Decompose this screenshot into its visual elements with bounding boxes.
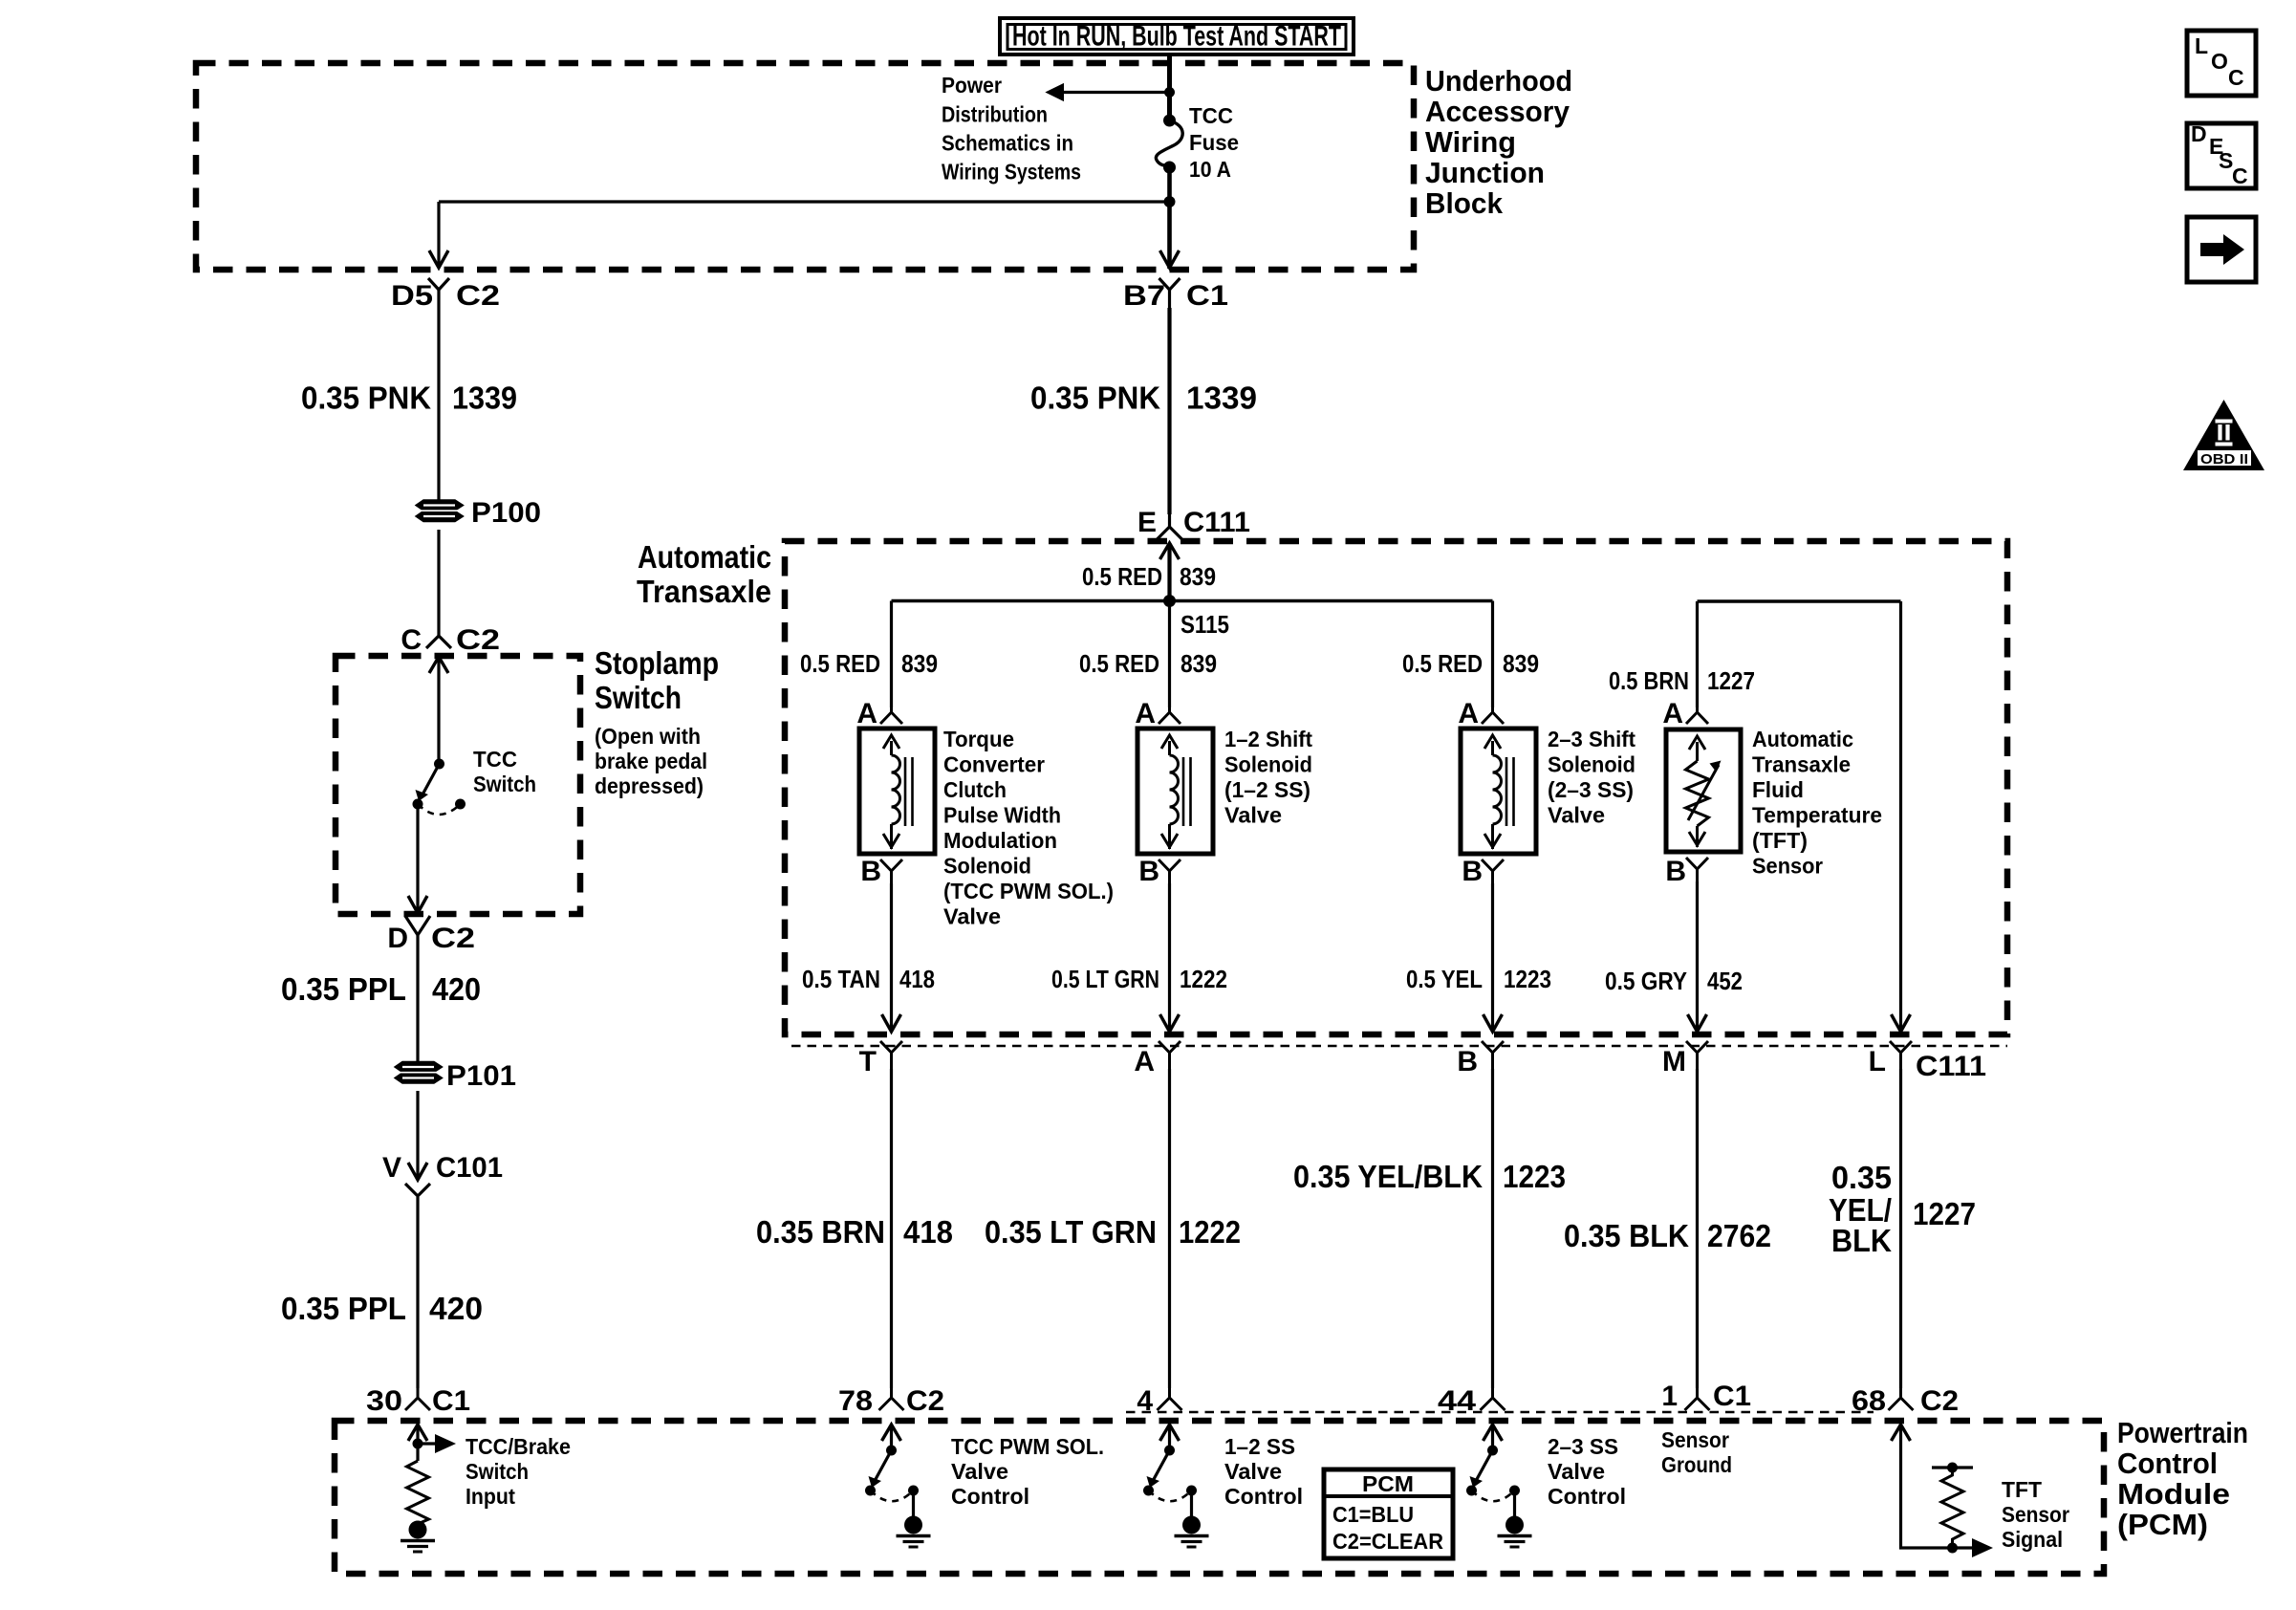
svg-text:30: 30 (366, 1385, 402, 1417)
svg-text:1227: 1227 (1913, 1196, 1976, 1231)
svg-text:OBD II: OBD II (2200, 451, 2248, 468)
wire: solenoid 3 B down to transaxle bottom with arrow (1484, 883, 1503, 1032)
solenoid 2-3 shift valve (coil) (1461, 729, 1536, 854)
svg-text:0.5 GRY: 0.5 GRY (1605, 967, 1687, 995)
svg-text:0.5 YEL: 0.5 YEL (1406, 965, 1483, 993)
svg-text:Control: Control (951, 1484, 1029, 1509)
arrow up into transaxle box at E (1160, 543, 1180, 559)
svg-text:Modulation: Modulation (943, 828, 1057, 853)
wire: P100 to stoplamp switch connector C (437, 530, 440, 623)
label: 0.35 PNK | 1339 (right) (1030, 381, 1257, 416)
wire: pin 30 entry with up arrow (408, 1425, 427, 1461)
label: 0.35 BLK | 2762 (1564, 1218, 1771, 1253)
svg-text:Automatic: Automatic (638, 539, 771, 575)
svg-text:C1=BLU: C1=BLU (1332, 1502, 1414, 1527)
arrow up into stoplamp box at C (429, 657, 448, 673)
svg-text:V: V (382, 1152, 401, 1184)
svg-text:Stoplamp: Stoplamp (595, 645, 719, 681)
wire: B down to PCM pin 44 (1491, 1069, 1494, 1388)
svg-text:418: 418 (903, 1214, 953, 1250)
wire: fuse bottom to junction with cross line (1167, 167, 1172, 269)
svg-text:0.5 RED: 0.5 RED (1082, 562, 1162, 591)
label: Stoplamp Switch (Open with brake pedal depressed) (595, 645, 719, 798)
svg-text:TCC: TCC (1189, 103, 1233, 128)
label: 0.5 RED | 839 (branch 3) (1402, 649, 1539, 678)
connector 4 (female, arms down) (1137, 1385, 1181, 1417)
svg-text:Valve: Valve (1224, 803, 1282, 828)
fuse TCC Fuse 10 A (1156, 115, 1182, 174)
svg-text:Valve: Valve (1224, 1459, 1282, 1484)
svg-text:TFT: TFT (2002, 1477, 2042, 1502)
svg-text:C: C (2232, 163, 2248, 188)
wire: E into splice S115 (1167, 543, 1171, 601)
connector C C2 (female, arms down) above stoplamp box (401, 623, 500, 656)
svg-text:Valve: Valve (1548, 803, 1605, 828)
wire: TFT link line to L drop (1698, 599, 1901, 603)
wire: TFT B down to transaxle bottom with arrow (1688, 881, 1707, 1032)
wire: TFT branch drop (1696, 601, 1699, 707)
svg-text:C2: C2 (456, 624, 500, 656)
svg-text:C2: C2 (456, 280, 500, 312)
label: Torque Converter Clutch Pulse Width Modulation Solenoid (TCC PWM SOL.) Valve (943, 727, 1114, 929)
svg-text:0.5 RED: 0.5 RED (800, 649, 880, 678)
wire: A down to PCM pin 4 (1168, 1069, 1171, 1388)
svg-text:Control: Control (2117, 1447, 2218, 1480)
connector 1 C1 (female, arms down) (1661, 1381, 1751, 1412)
svg-text:D: D (2191, 121, 2207, 146)
Underhood Accessory Wiring Junction Block dashed box (196, 63, 1414, 270)
svg-text:A: A (856, 698, 877, 729)
svg-text:C1: C1 (1186, 280, 1228, 312)
svg-text:C1: C1 (432, 1385, 470, 1417)
svg-text:(Open with: (Open with (595, 724, 701, 749)
wire: C101 down to PCM pin 30 (416, 1197, 419, 1388)
label: TCC Switch (473, 747, 536, 796)
solenoid TCC PWM SOL. valve (coil) (859, 729, 935, 854)
node: junction dot at pullup resistor bottom (1947, 1543, 1958, 1554)
svg-text:C1: C1 (1713, 1381, 1751, 1412)
Stoplamp Switch dashed box (336, 656, 580, 914)
wire: branch 3 drop (2-3 shift) (1491, 601, 1494, 708)
svg-text:Block: Block (1425, 186, 1504, 220)
svg-text:Solenoid: Solenoid (943, 854, 1031, 879)
arrow into junction block bottom at B7 (1160, 250, 1180, 268)
label: 0.5 TAN | 418 (802, 965, 935, 993)
svg-text:L: L (1869, 1046, 1886, 1077)
svg-text:0.35 LT GRN: 0.35 LT GRN (985, 1214, 1157, 1250)
label: 0.35 YEL/ BLK | 1227 (stacked) (1829, 1160, 1976, 1258)
svg-text:Fluid: Fluid (1752, 777, 1804, 802)
label: 1-2 Shift Solenoid (1-2 SS) Valve (1224, 727, 1312, 828)
svg-text:10 A: 10 A (1189, 157, 1231, 182)
svg-text:44: 44 (1438, 1385, 1476, 1417)
label: 0.35 PNK | 1339 (left) (301, 381, 517, 416)
svg-text:1227: 1227 (1707, 666, 1755, 695)
connector E C111 (female, arms down) (1137, 507, 1250, 539)
svg-text:Switch: Switch (466, 1459, 529, 1484)
svg-text:C2: C2 (1920, 1385, 1959, 1417)
svg-text:C: C (401, 624, 422, 656)
label: 0.35 PPL | 420 (upper) (281, 971, 481, 1007)
svg-text:PCM: PCM (1362, 1471, 1414, 1496)
svg-text:L: L (2195, 33, 2208, 58)
svg-text:B: B (1462, 856, 1483, 887)
svg-text:1: 1 (1661, 1381, 1678, 1412)
svg-text:Sensor: Sensor (2002, 1502, 2069, 1527)
Underhood Accessory Wiring Junction Block label (1425, 64, 1572, 220)
switch: PCM driver (pin 4) (1143, 1446, 1197, 1502)
svg-text:839: 839 (1503, 649, 1539, 678)
label: 0.5 RED | 839 (top) (1082, 562, 1216, 591)
label: 2-3 SS Valve Control (1548, 1434, 1626, 1509)
svg-text:Sensor: Sensor (1661, 1427, 1729, 1452)
svg-text:Transaxle: Transaxle (1752, 752, 1851, 777)
node: junction dot at power dist tap (1164, 87, 1175, 98)
grommet P101 (391, 1060, 516, 1092)
svg-text:0.35 YEL/BLK: 0.35 YEL/BLK (1293, 1159, 1483, 1194)
label: 0.35 BRN | 418 (756, 1214, 953, 1250)
wire: solenoid 2 B down to transaxle bottom with arrow (1160, 883, 1180, 1032)
svg-text:839: 839 (1180, 562, 1216, 591)
svg-text:Fuse: Fuse (1189, 130, 1239, 155)
svg-text:BLK: BLK (1831, 1223, 1892, 1258)
Automatic Transaxle dashed box (785, 541, 2007, 1034)
svg-text:M: M (1662, 1046, 1686, 1077)
svg-text:B: B (1457, 1046, 1478, 1077)
connector 30 C1 (female, arms down) (366, 1385, 470, 1417)
svg-text:P101: P101 (446, 1060, 516, 1092)
switch: PCM driver (pin 44) (1466, 1446, 1520, 1502)
svg-text:Valve: Valve (1548, 1459, 1605, 1484)
pin B connector solenoid 3 (1462, 856, 1504, 887)
svg-text:2762: 2762 (1707, 1218, 1771, 1253)
wire: splice bus left/right (892, 599, 1493, 603)
svg-text:(2–3 SS): (2–3 SS) (1548, 777, 1634, 802)
ground: pin 30 internal ground (401, 1521, 435, 1553)
label: TCC/Brake Switch Input (466, 1434, 571, 1509)
svg-text:Hot In RUN, Bulb Test And STAR: Hot In RUN, Bulb Test And START (1012, 21, 1341, 53)
solenoid 1-2 shift valve (coil) (1137, 729, 1213, 854)
label: 0.5 GRY | 452 (1605, 967, 1743, 995)
wire: to power distribution (left arrow) (1047, 84, 1170, 101)
wire: branch 1 drop (TCC PWM solenoid) (890, 601, 893, 708)
label: 0.5 LT GRN | 1222 (1051, 965, 1227, 993)
TCC switch inside stoplamp box (413, 657, 466, 815)
label: TCC Fuse 10 A (1189, 103, 1239, 182)
svg-text:1339: 1339 (452, 381, 517, 416)
label: TFT Sensor Signal (2002, 1477, 2069, 1552)
svg-text:Wiring Systems: Wiring Systems (942, 160, 1081, 185)
ground: pin 44 driver ground (1498, 1490, 1532, 1547)
svg-text:Automatic: Automatic (1752, 727, 1853, 751)
svg-text:1339: 1339 (1186, 381, 1257, 416)
wire: B7 down to E C111 (1167, 308, 1171, 514)
svg-text:Junction: Junction (1425, 156, 1545, 189)
svg-text:B: B (860, 856, 881, 887)
label: 0.5 YEL | 1223 (1406, 965, 1551, 993)
svg-text:TCC/Brake: TCC/Brake (466, 1434, 571, 1459)
node: junction dot at horizontal feed line (1164, 196, 1176, 207)
pin A connector TFT sensor (1662, 698, 1708, 729)
svg-text:Switch: Switch (595, 680, 682, 715)
svg-text:Ground: Ground (1661, 1452, 1732, 1477)
arrow: TCC/Brake switch input signal (418, 1434, 456, 1453)
svg-text:0.5 TAN: 0.5 TAN (802, 965, 880, 993)
svg-text:E: E (1137, 507, 1157, 538)
svg-text:B: B (1665, 856, 1686, 887)
resistor: PCM pull-up on pin 30 (407, 1461, 429, 1524)
wire: pin 68 entry with up arrow and bend right (1892, 1425, 1975, 1548)
pin A connector solenoid 2 (1135, 698, 1180, 729)
svg-text:D5: D5 (391, 280, 433, 312)
connector V C101 (arrow down into female Y) (382, 1152, 503, 1196)
svg-text:0.35 PPL: 0.35 PPL (281, 971, 406, 1007)
label: 0.35 YEL/BLK | 1223 (1293, 1159, 1566, 1194)
pin A connector solenoid 3 (1458, 698, 1504, 729)
svg-text:Valve: Valve (943, 904, 1001, 929)
svg-text:O: O (2211, 49, 2228, 74)
connector M C111 (female Y) (1662, 1041, 1708, 1077)
connector 68 C2 (female, arms down) (1852, 1385, 1959, 1417)
svg-text:B: B (1138, 856, 1159, 887)
svg-text:78: 78 (838, 1385, 873, 1417)
svg-text:A: A (1134, 1046, 1155, 1077)
label: 0.5 RED | 839 (branch 1) (800, 649, 938, 678)
wire: D C2 down to P101 (416, 952, 419, 1063)
svg-text:Transaxle: Transaxle (637, 574, 771, 609)
svg-text:P100: P100 (471, 497, 541, 529)
svg-text:A: A (1662, 698, 1683, 729)
svg-text:Power: Power (942, 73, 1002, 98)
svg-text:2–3 Shift: 2–3 Shift (1548, 727, 1635, 751)
svg-text:1222: 1222 (1179, 1214, 1241, 1250)
label: 0.35 LT GRN | 1222 (985, 1214, 1241, 1250)
wire: T down to PCM pin 78 (890, 1069, 893, 1388)
ground: pin 78 driver ground (897, 1490, 931, 1547)
svg-text:(1–2 SS): (1–2 SS) (1224, 777, 1310, 802)
svg-text:TCC: TCC (473, 747, 517, 772)
svg-text:Solenoid: Solenoid (1548, 752, 1635, 777)
arrow: TFT sensor signal into PCM (1972, 1538, 1993, 1557)
svg-text:C2: C2 (906, 1385, 944, 1417)
label: Automatic Transaxle (637, 539, 771, 609)
svg-text:C: C (2228, 65, 2244, 90)
connector D5 C2 (female Y) (391, 278, 500, 312)
icon forward arrow box (2187, 217, 2256, 282)
svg-text:C111: C111 (1916, 1051, 1986, 1082)
svg-text:Wiring: Wiring (1425, 125, 1516, 159)
label: 0.5 BRN | 1227 (1609, 666, 1755, 695)
wire: pin 4 entry with up arrow (1160, 1425, 1180, 1449)
label: 2-3 Shift Solenoid (2-3 SS) Valve (1548, 727, 1635, 828)
wire: L down to PCM pin 68 (1899, 1069, 1902, 1388)
svg-text:Switch: Switch (473, 772, 536, 796)
label: Automatic Transaxle Fluid Temperature (TFT) Sensor (1752, 727, 1882, 879)
connector D C2 (female Y) below stoplamp box (387, 916, 475, 954)
pin B connector solenoid 2 (1138, 856, 1180, 887)
connector L C111 (female Y) (1869, 1041, 1986, 1082)
svg-text:839: 839 (901, 649, 938, 678)
svg-text:0.5 RED: 0.5 RED (1079, 649, 1159, 678)
svg-text:1223: 1223 (1503, 1159, 1566, 1194)
connector B7 C1 (female Y) (1123, 278, 1228, 312)
svg-text:(TFT): (TFT) (1752, 828, 1808, 853)
svg-text:0.35 BRN: 0.35 BRN (756, 1214, 885, 1250)
svg-text:A: A (1458, 698, 1479, 729)
svg-text:0.35: 0.35 (1831, 1160, 1892, 1195)
icon DESC box (2187, 121, 2256, 188)
svg-text:Distribution: Distribution (942, 102, 1048, 127)
resistor: PCM pull-up for TFT signal (1932, 1463, 1973, 1549)
wire: P101 down to C101 (416, 1091, 419, 1178)
svg-text:Pulse Width: Pulse Width (943, 803, 1061, 828)
node: splice S115 dot (1163, 595, 1176, 607)
svg-text:Control: Control (1548, 1484, 1626, 1509)
svg-text:Torque: Torque (943, 727, 1014, 751)
svg-text:Module: Module (2117, 1477, 2230, 1511)
connector line C111 (thin dashed) (791, 1045, 2007, 1047)
svg-text:68: 68 (1852, 1385, 1886, 1417)
svg-text:452: 452 (1707, 967, 1743, 995)
connector A C111 (female Y) (1134, 1041, 1180, 1077)
svg-text:T: T (859, 1046, 877, 1077)
svg-text:C2: C2 (431, 923, 475, 954)
svg-text:C101: C101 (436, 1152, 503, 1184)
wire: solenoid 1 B down to transaxle bottom with arrow (882, 883, 901, 1032)
ground: pin 4 driver ground (1175, 1490, 1209, 1547)
icon LOC box (2187, 31, 2256, 96)
switch: PCM driver (pin 78) (865, 1446, 919, 1502)
label: 1-2 SS Valve Control (1224, 1434, 1303, 1509)
svg-text:Sensor: Sensor (1752, 854, 1823, 879)
connector T C111 (female Y) (859, 1041, 902, 1077)
svg-text:420: 420 (429, 1291, 483, 1326)
svg-text:B7: B7 (1123, 280, 1165, 312)
TFT sensor (thermistor) (1666, 729, 1741, 852)
label: Powertrain Control Module (PCM) (2117, 1416, 2248, 1541)
svg-text:Schematics in: Schematics in (942, 131, 1073, 156)
label: 0.35 PPL | 420 (lower) (281, 1291, 483, 1326)
svg-text:418: 418 (899, 965, 935, 993)
wire: stub from junction dot to fuse top (1167, 92, 1172, 119)
wire: switch to D C2 with down arrow (408, 804, 427, 913)
svg-text:Clutch: Clutch (943, 777, 1007, 802)
connector B C111 (female Y) (1457, 1041, 1504, 1077)
svg-text:S115: S115 (1180, 610, 1229, 639)
svg-text:420: 420 (432, 971, 481, 1007)
svg-text:0.35 PNK: 0.35 PNK (301, 381, 431, 416)
svg-text:0.5 RED: 0.5 RED (1402, 649, 1483, 678)
wire: D5 down to P100 (0.35 PNK 1339) (437, 308, 440, 501)
connector 78 C2 (female, arms down) (838, 1385, 944, 1417)
svg-text:1222: 1222 (1180, 965, 1227, 993)
pin A connector solenoid 1 (female, arms down) (856, 698, 902, 729)
svg-text:Accessory: Accessory (1425, 95, 1570, 128)
svg-text:839: 839 (1180, 649, 1217, 678)
svg-text:Underhood: Underhood (1425, 64, 1572, 98)
wire: pin 44 entry with up arrow (1484, 1425, 1503, 1449)
svg-text:(TCC PWM SOL.): (TCC PWM SOL.) (943, 879, 1114, 903)
svg-text:4: 4 (1137, 1385, 1153, 1417)
svg-text:Solenoid: Solenoid (1224, 752, 1312, 777)
svg-text:D: D (387, 923, 408, 954)
svg-text:brake pedal: brake pedal (595, 749, 707, 773)
node: junction dot pin 30 (413, 1439, 423, 1449)
label: Sensor Ground (1661, 1427, 1732, 1477)
label: TCC PWM SOL. Valve Control (951, 1434, 1104, 1509)
pin B connector TFT sensor (1665, 856, 1708, 887)
PCM legend box (1324, 1469, 1453, 1558)
wire: L drop to C111 with arrow (1892, 601, 1911, 1032)
svg-text:TCC PWM SOL.: TCC PWM SOL. (951, 1434, 1104, 1459)
wire: branch 2 drop (1-2 shift) (1168, 601, 1171, 708)
svg-text:1–2 Shift: 1–2 Shift (1224, 727, 1312, 751)
svg-text:Valve: Valve (951, 1459, 1008, 1484)
svg-text:2–3 SS: 2–3 SS (1548, 1434, 1618, 1459)
wire: pin 78 entry with up arrow (882, 1425, 901, 1449)
icon OBD II triangle (2183, 400, 2264, 470)
wire: feed stub from label box into junction block (1167, 54, 1172, 92)
svg-text:Signal: Signal (2002, 1527, 2063, 1552)
svg-text:1–2 SS: 1–2 SS (1224, 1434, 1295, 1459)
svg-text:(PCM): (PCM) (2117, 1508, 2208, 1541)
svg-text:C2=CLEAR: C2=CLEAR (1332, 1529, 1443, 1554)
wire: horizontal feed to left drop (439, 200, 1170, 203)
label: 0.5 RED | 839 (branch 2) (1079, 649, 1217, 678)
label: Power Distribution Schematics in Wiring Systems (942, 73, 1081, 185)
svg-text:1223: 1223 (1504, 965, 1551, 993)
grommet P100 (412, 497, 541, 529)
svg-text:Temperature: Temperature (1752, 803, 1882, 828)
svg-text:0.35 PPL: 0.35 PPL (281, 1291, 406, 1326)
svg-text:C111: C111 (1183, 507, 1250, 538)
Powertrain Control Module dashed box (335, 1421, 2104, 1574)
connector 44 (female, arms down) (1438, 1385, 1505, 1417)
svg-text:depressed): depressed) (595, 773, 704, 798)
pin B connector solenoid 1 (female Y) (860, 856, 902, 887)
wire: M down to PCM pin 1 (1696, 1069, 1699, 1388)
svg-text:Control: Control (1224, 1484, 1303, 1509)
connector line PCM C1/C2 (thin dashed) (1126, 1411, 1874, 1413)
wire: left drop to D5 with arrow (429, 202, 448, 268)
svg-text:Converter: Converter (943, 752, 1045, 777)
svg-text:0.35 BLK: 0.35 BLK (1564, 1218, 1689, 1253)
svg-text:Input: Input (466, 1484, 515, 1509)
svg-text:0.5 BRN: 0.5 BRN (1609, 666, 1689, 695)
svg-text:A: A (1135, 698, 1156, 729)
svg-text:Powertrain: Powertrain (2117, 1416, 2248, 1449)
power feed label box "Hot In RUN, Bulb Test And START" (1000, 18, 1354, 54)
svg-text:0.5 LT GRN: 0.5 LT GRN (1051, 965, 1159, 993)
svg-text:0.35 PNK: 0.35 PNK (1030, 381, 1160, 416)
